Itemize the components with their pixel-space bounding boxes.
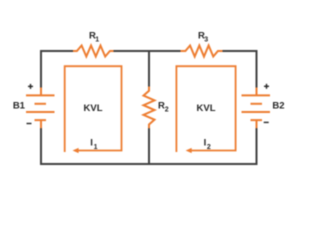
svg-text:2: 2 xyxy=(207,144,211,151)
svg-text:3: 3 xyxy=(204,37,208,44)
svg-text:B2: B2 xyxy=(272,101,284,112)
svg-text:1: 1 xyxy=(95,37,99,44)
svg-text:I: I xyxy=(204,138,207,149)
svg-text:KVL: KVL xyxy=(84,103,103,114)
svg-text:2: 2 xyxy=(165,107,169,114)
svg-text:B1: B1 xyxy=(13,101,26,112)
svg-text:I: I xyxy=(90,138,93,149)
svg-text:KVL: KVL xyxy=(197,103,216,114)
svg-text:1: 1 xyxy=(94,144,98,151)
